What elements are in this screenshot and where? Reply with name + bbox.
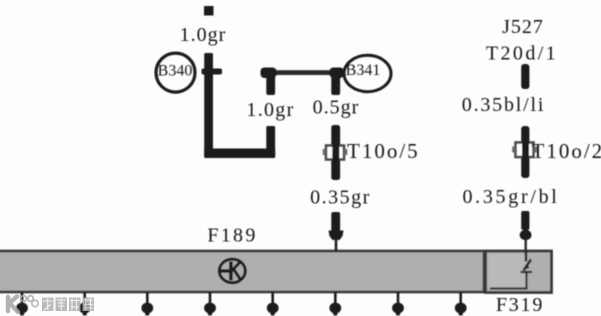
svg-text:0.35gr/bl: 0.35gr/bl bbox=[462, 186, 559, 208]
svg-text:B340: B340 bbox=[158, 63, 193, 80]
svg-text:0.5gr: 0.5gr bbox=[313, 97, 360, 119]
svg-text:B341: B341 bbox=[346, 62, 381, 79]
svg-text:F319: F319 bbox=[496, 294, 544, 316]
svg-text:T20d/1: T20d/1 bbox=[486, 43, 558, 65]
svg-text:0.35gr: 0.35gr bbox=[310, 187, 371, 209]
svg-text:T10o/2: T10o/2 bbox=[532, 139, 601, 163]
svg-text:1.0gr: 1.0gr bbox=[246, 99, 294, 121]
svg-text:0.35bl/li: 0.35bl/li bbox=[462, 94, 545, 116]
svg-text:T10o/5: T10o/5 bbox=[347, 139, 420, 163]
svg-text:1.0gr: 1.0gr bbox=[180, 24, 227, 46]
svg-text:F189: F189 bbox=[207, 225, 257, 247]
svg-text:J527: J527 bbox=[502, 16, 544, 38]
